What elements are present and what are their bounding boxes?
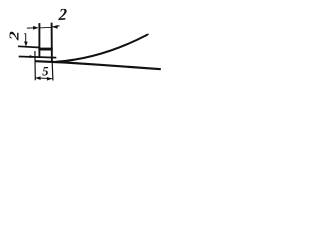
svg-text:2: 2 — [57, 5, 67, 25]
svg-text:5: 5 — [42, 65, 48, 79]
svg-text:2: 2 — [6, 31, 22, 41]
